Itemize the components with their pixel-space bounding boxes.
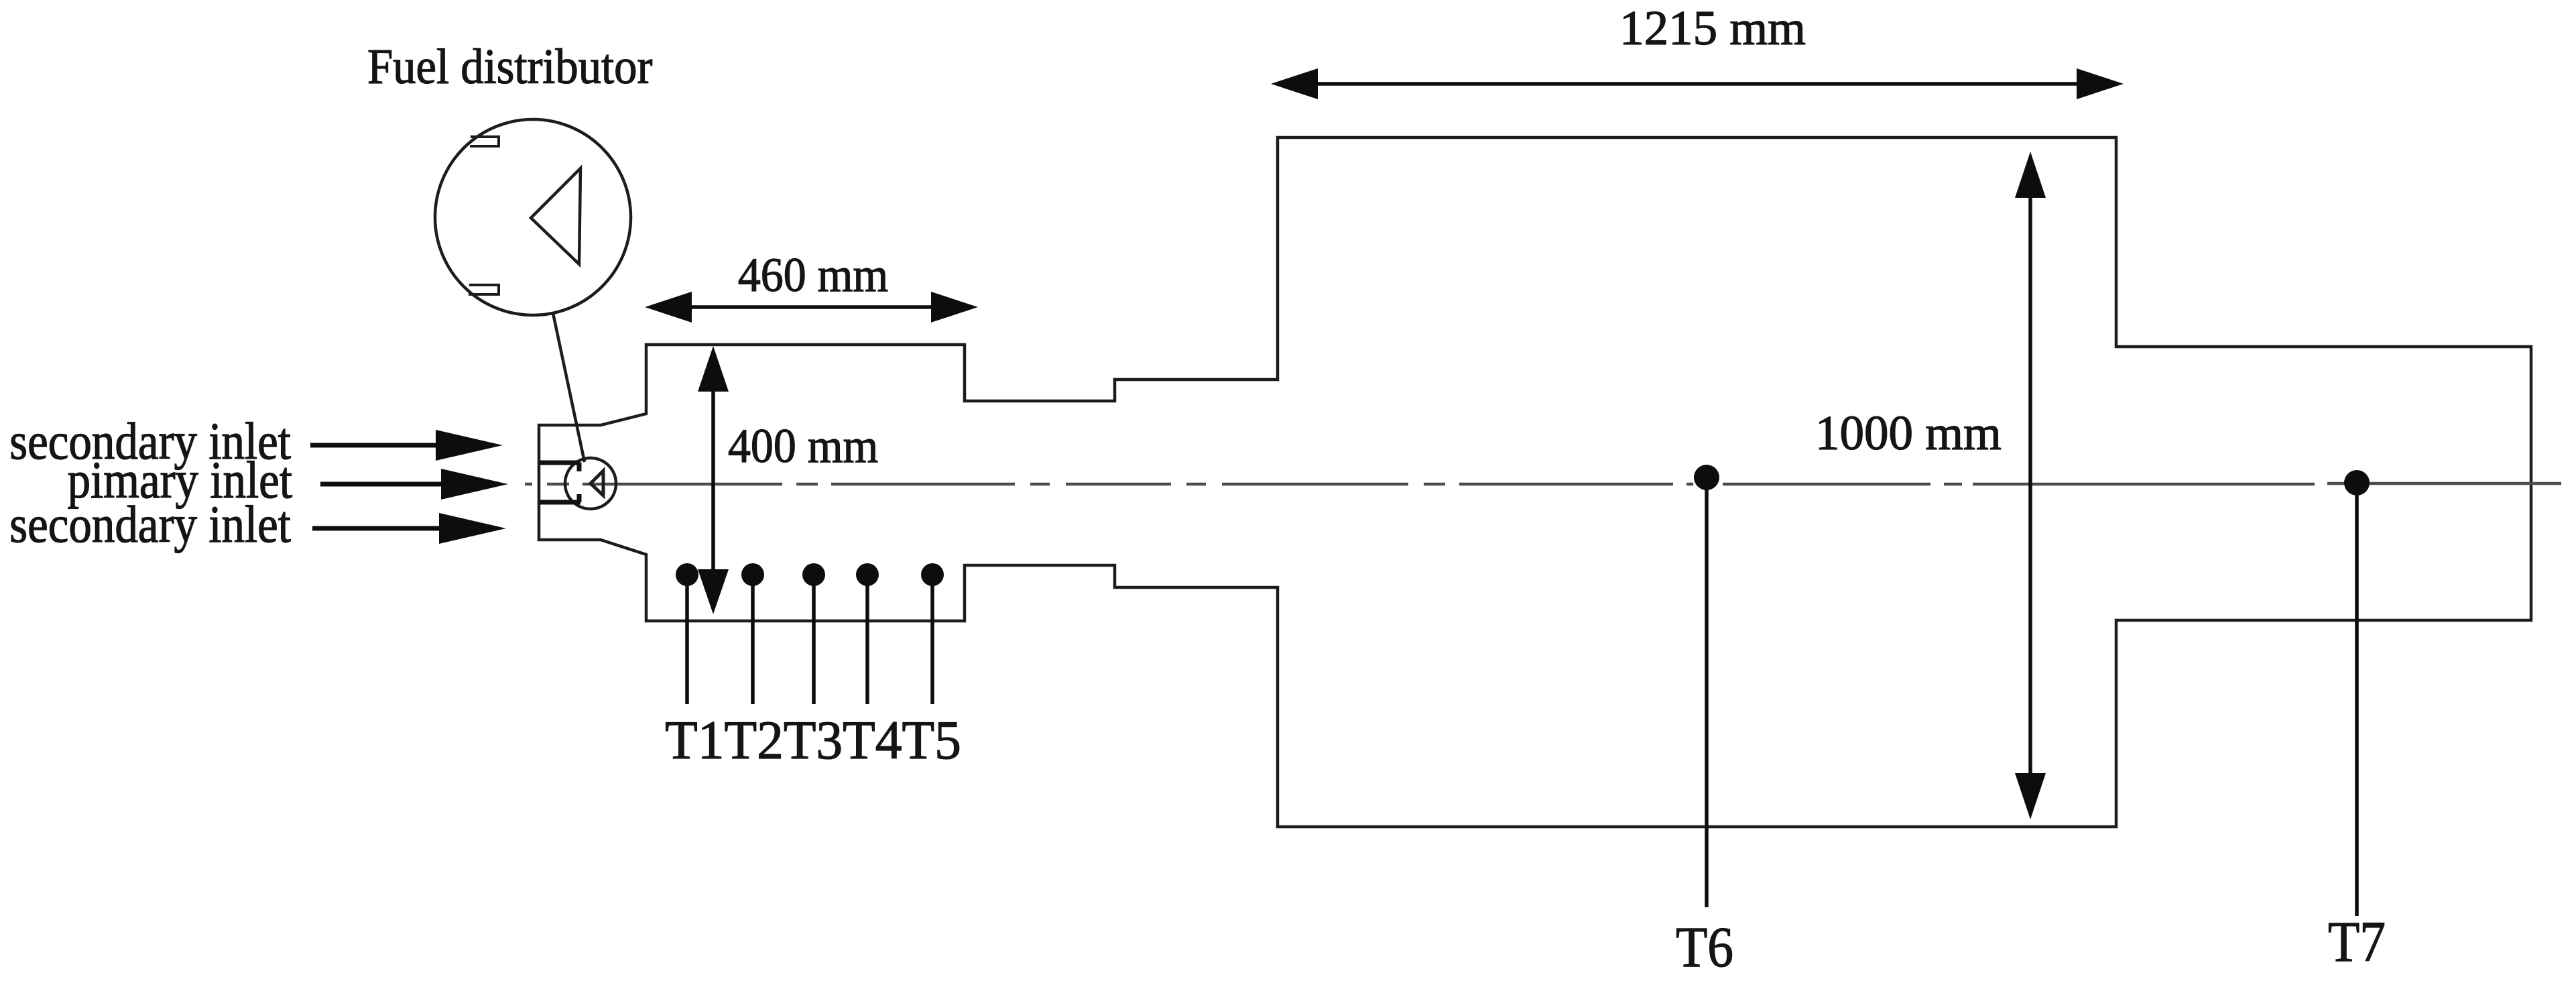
T7 leader (2355, 483, 2359, 916)
fuel distributor top tab (470, 137, 499, 146)
fuel distributor circle (435, 119, 631, 315)
dimension 1000 mm arrow (2015, 152, 2046, 819)
svg-text:secondary inlet: secondary inlet (9, 495, 291, 553)
svg-text:T7: T7 (2328, 909, 2386, 974)
centerline (axis, dash-dot) (525, 483, 2561, 484)
svg-text:Fuel distributor: Fuel distributor (367, 40, 653, 95)
T6 leader (1705, 477, 1709, 907)
svg-text:400 mm: 400 mm (728, 419, 878, 473)
svg-text:T1T2T3T4T5: T1T2T3T4T5 (665, 710, 961, 770)
thermocouple T3 dot (802, 563, 825, 586)
svg-text:T6: T6 (1676, 915, 1733, 979)
channel end tick lower (577, 494, 582, 502)
svg-text:1215 mm: 1215 mm (1619, 1, 1806, 55)
T3 leader (812, 575, 816, 704)
primary channel wall lower (540, 500, 580, 505)
thermocouple T2 dot (741, 563, 764, 586)
combustor rig outline (539, 137, 2531, 827)
thermocouple T4 dot (856, 563, 879, 586)
channel end tick upper (577, 463, 582, 471)
T4 leader (865, 575, 869, 704)
thermocouple T7 dot (2344, 470, 2370, 496)
injector triangle (591, 471, 603, 496)
primary channel wall upper (540, 461, 580, 465)
thermocouple T5 dot (921, 563, 944, 586)
fuel distributor bottom tab (469, 285, 499, 294)
dimension 1215 mm arrow (1271, 68, 2124, 99)
secondary inlet arrow bottom (312, 513, 506, 544)
dimension 460 mm arrow (645, 292, 978, 323)
leader from fuel distributor to injector (553, 313, 585, 462)
thermocouple T1 dot (676, 563, 698, 586)
T5 leader (930, 575, 934, 704)
fuel distributor triangle (531, 168, 580, 264)
T2 leader (751, 575, 755, 704)
injector circle (565, 458, 616, 509)
T1 leader (685, 575, 689, 704)
svg-text:1000 mm: 1000 mm (1815, 406, 2002, 460)
dimension 400 mm arrow (698, 346, 729, 614)
primary inlet arrow (320, 469, 508, 500)
svg-text:460 mm: 460 mm (738, 248, 888, 302)
thermocouple T6 dot (1694, 465, 1719, 490)
secondary inlet arrow top (310, 430, 503, 461)
